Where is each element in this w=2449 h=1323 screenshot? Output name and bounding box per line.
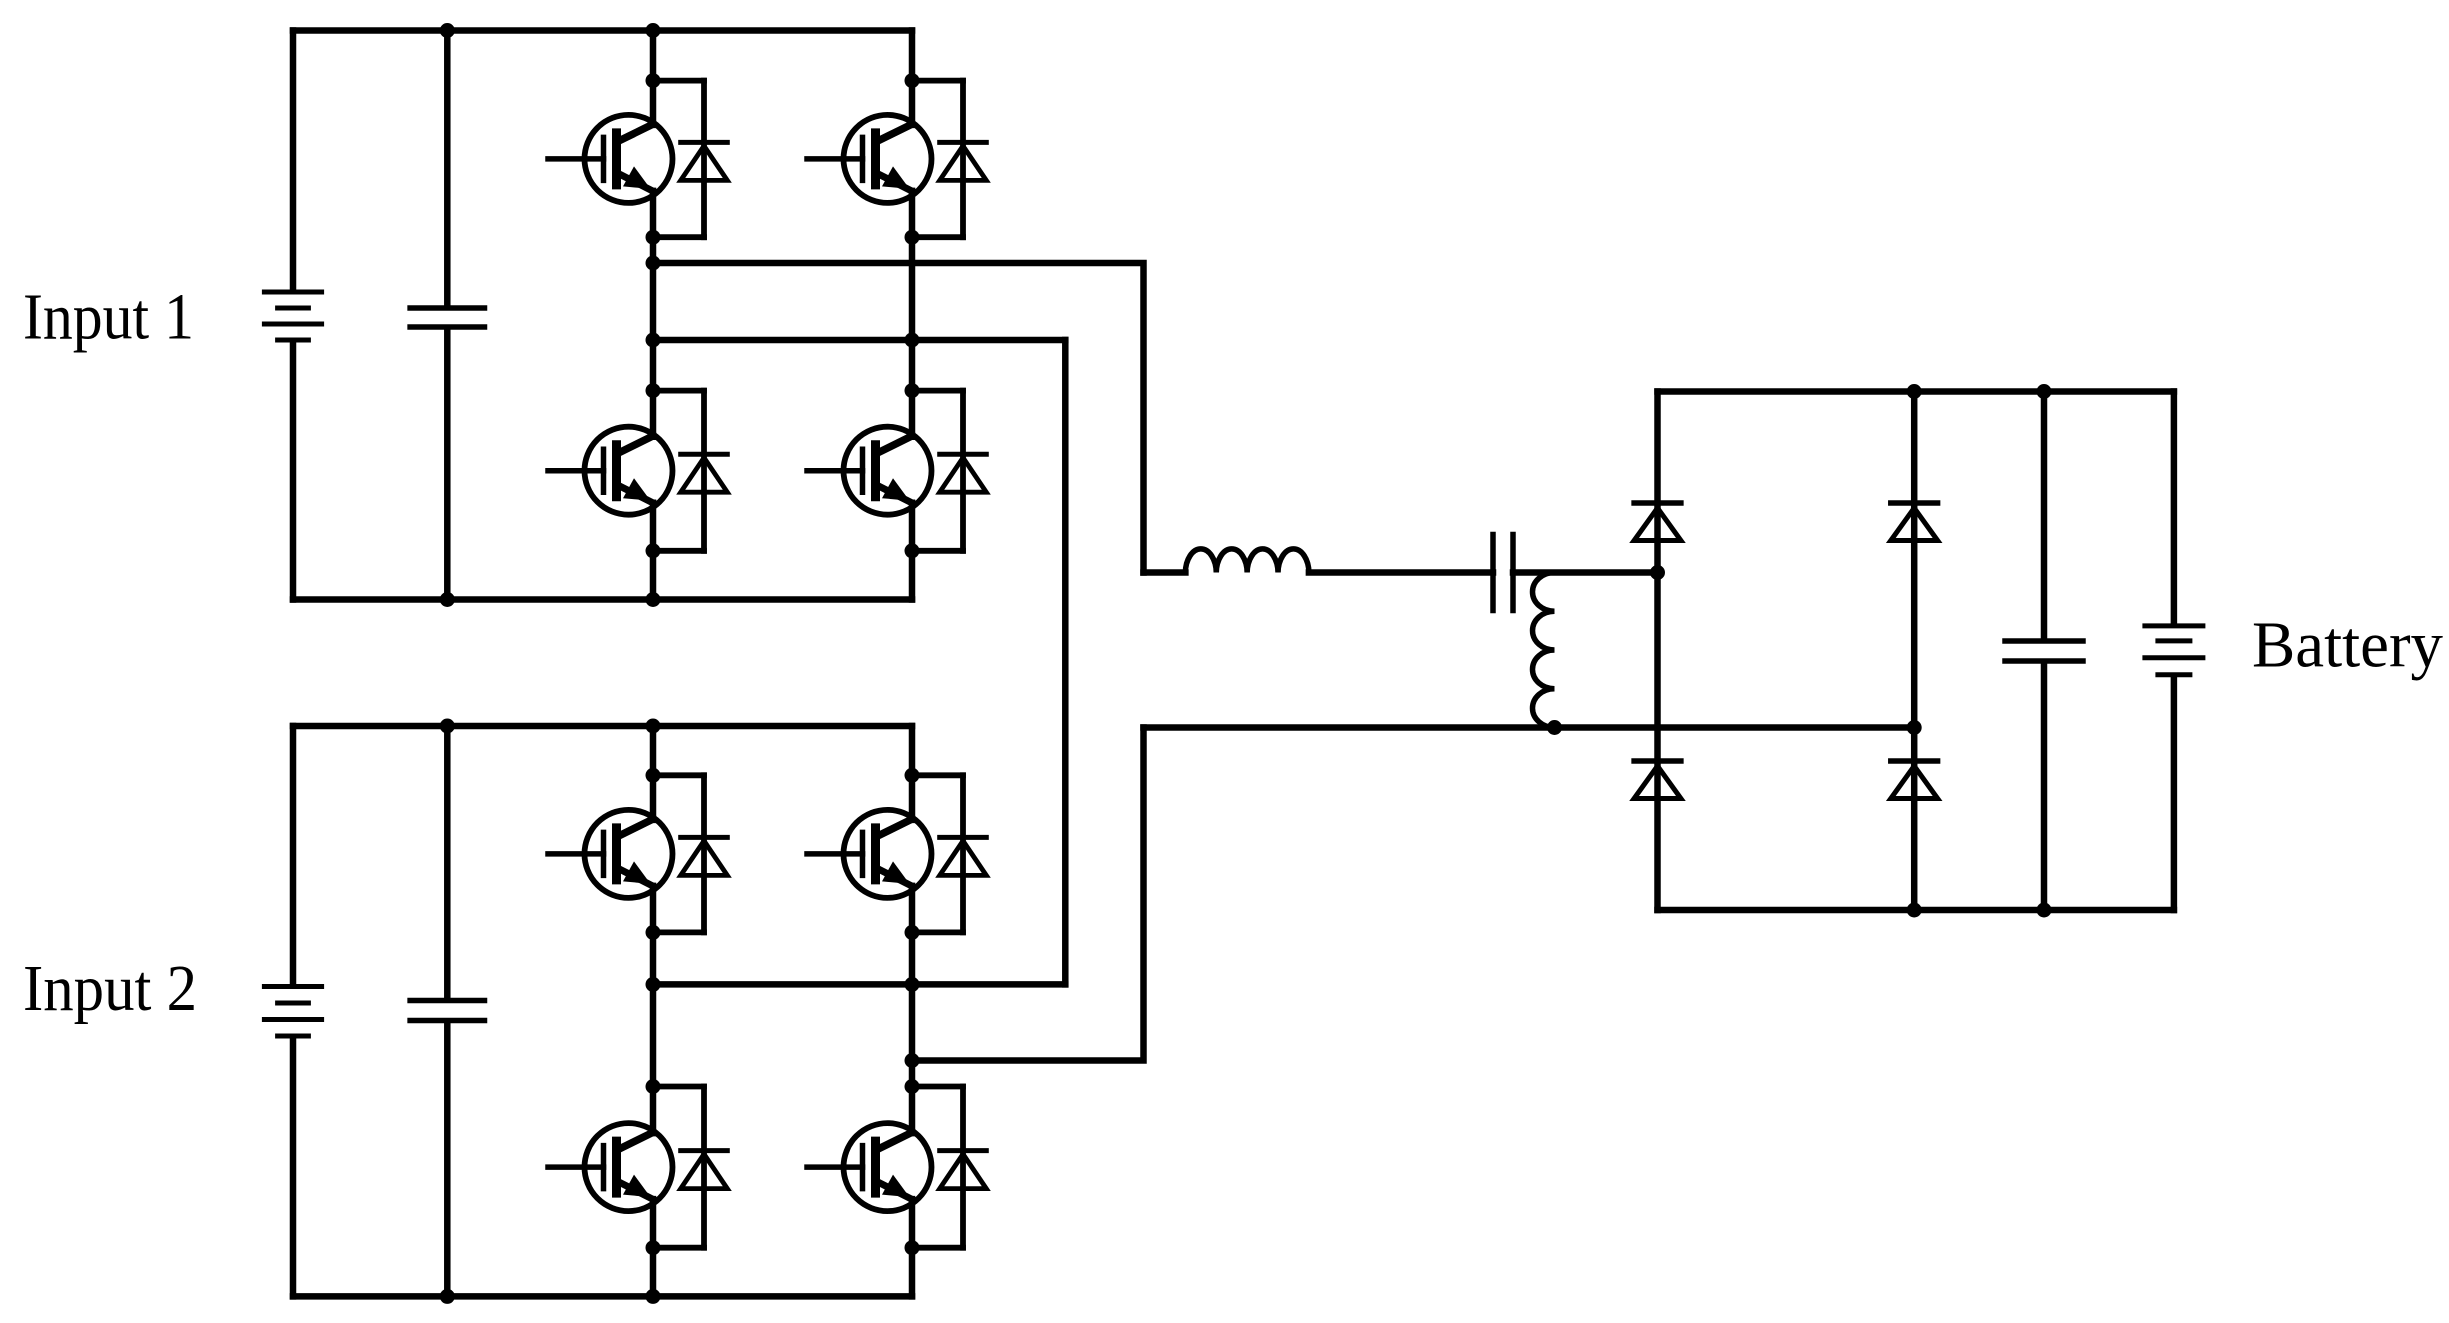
svg-text:Input 2: Input 2	[23, 952, 197, 1025]
diode D11 (bridge bottom-left)	[1634, 761, 1681, 799]
diode D6 (anti-parallel)	[912, 775, 986, 932]
wire - input1 capacitor branch lower	[444, 329, 451, 600]
wire - input2 right leg top	[909, 726, 916, 820]
Input 1 dc source block top rail wire	[293, 27, 912, 34]
capacitor Co (output filter)	[2005, 641, 2083, 661]
wire - series tank left segment	[1144, 569, 1186, 576]
rectifier block top rail wire	[1658, 388, 2174, 395]
wire - input2 left leg top	[650, 726, 657, 820]
wire - input1 capacitor branch upper	[444, 31, 451, 307]
IGBT Q1 (input1 top-left)	[548, 115, 673, 203]
Input 1 block bottom rail wire	[293, 596, 912, 603]
diode D12 (bridge bottom-right)	[1891, 761, 1938, 799]
wire - input2 left leg bottom	[650, 1199, 657, 1296]
wire - bridge right leg	[1911, 392, 1918, 911]
wire - input2 capacitor branch upper	[444, 726, 451, 999]
IGBT Q8 (input2 bottom-right)	[807, 1123, 932, 1211]
wire - input1 output A to series tank	[653, 263, 1144, 573]
Input 2 block bottom rail wire	[293, 1293, 912, 1300]
wire - lower return to rectifier	[1144, 724, 1915, 731]
wire - battery branch upper	[2171, 392, 2178, 624]
IGBT Q3 (input1 bottom-left)	[548, 427, 673, 515]
IGBT Q7 (input2 bottom-left)	[548, 1123, 673, 1211]
IGBT Q2 (input1 top-right)	[807, 115, 932, 203]
diode D10 (bridge top-right)	[1891, 503, 1938, 541]
inductor Lr (series resonant)	[1185, 549, 1309, 573]
diode D8 (anti-parallel)	[912, 1087, 986, 1248]
wire - input1 right leg top	[909, 31, 916, 125]
inductor Lm (shunt/magnetizing)	[1533, 573, 1555, 728]
capacitor C2 (input 2 dc-link)	[410, 1001, 484, 1021]
IGBT Q6 (input2 top-right)	[807, 810, 932, 898]
IGBT Q4 (input1 bottom-right)	[807, 427, 932, 515]
diode D7 (anti-parallel)	[653, 1087, 727, 1248]
wire - bridge left leg	[1654, 392, 1661, 911]
wire - input2 left edge lower	[290, 1038, 297, 1296]
diode D9 (bridge top-left)	[1634, 503, 1681, 541]
capacitor Cr (series resonant)	[1490, 535, 1496, 611]
capacitor C1 (input 1 dc-link)	[410, 308, 484, 327]
diode D2 (anti-parallel)	[912, 81, 986, 238]
wire - input1 left leg top	[650, 31, 657, 125]
wire - input1 right leg bottom	[909, 503, 916, 600]
wire - series tank right segment	[1513, 569, 1658, 576]
battery (output)	[2145, 626, 2203, 675]
wire - series tank middle segment	[1309, 569, 1493, 576]
wire - input1 left leg bottom	[650, 503, 657, 600]
rectifier block bottom rail wire	[1658, 907, 2174, 914]
battery V2 (Input 2 source)	[264, 987, 321, 1037]
svg-text:Battery: Battery	[2252, 609, 2443, 682]
wire - input1 left leg middle	[650, 191, 657, 437]
wire - output capacitor branch lower	[2041, 664, 2048, 911]
wire - input2 left edge upper	[290, 726, 297, 985]
diode D5 (anti-parallel)	[653, 775, 727, 932]
wire - input1 left edge upper	[290, 31, 297, 291]
diode D3 (anti-parallel)	[653, 391, 727, 551]
wire - input2 right leg bottom	[909, 1199, 916, 1296]
wire - battery branch lower	[2171, 678, 2178, 911]
wire - input1 left edge lower	[290, 342, 297, 600]
wire - input2 capacitor branch lower	[444, 1023, 451, 1296]
wire - input2 output to rectifier return	[912, 728, 1144, 1061]
wire - input1 mid rail	[653, 337, 1065, 344]
wire - input2 left leg middle	[650, 886, 657, 1133]
wire - input2 mid rail	[653, 981, 1065, 988]
wire - input2 right leg middle	[909, 886, 916, 1133]
svg-text:Input 1: Input 1	[23, 281, 194, 354]
battery V1 (Input 1 source)	[264, 292, 321, 340]
diode D1 (anti-parallel)	[653, 81, 727, 238]
IGBT Q5 (input2 top-left)	[548, 810, 673, 898]
Input 2 block top rail wire	[293, 723, 912, 730]
diode D4 (anti-parallel)	[912, 391, 986, 551]
wire - output capacitor branch upper	[2041, 392, 2048, 639]
wire - rail riser joining input1 and input2 rails	[1062, 340, 1069, 984]
wire - input1 right leg middle	[909, 191, 916, 437]
